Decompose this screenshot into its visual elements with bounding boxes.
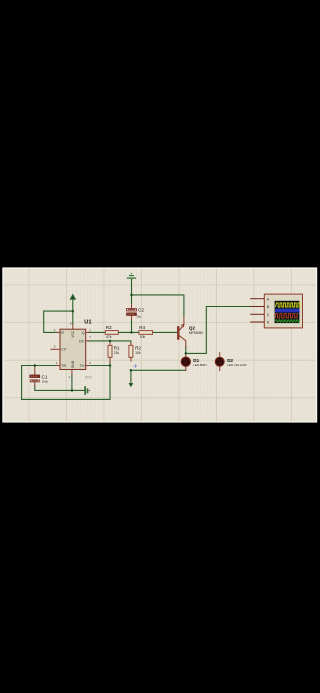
U1 pin stubs — [72, 325, 74, 330]
oscilloscope — [250, 294, 302, 328]
wire Q2 lower lead to D1 junction — [185, 347, 187, 354]
wire TH junction down, bottom run, up to TR line — [22, 366, 110, 400]
wire TH pin6 to R1 bottom junction — [89, 365, 111, 367]
svg-text:LED-BIRY: LED-BIRY — [193, 363, 207, 367]
svg-text:D1: D1 — [193, 358, 199, 363]
svg-text:R3: R3 — [106, 325, 112, 330]
scope pin stubs — [250, 299, 264, 322]
red component pin leads — [35, 304, 220, 385]
svg-text:Q: Q — [82, 331, 85, 335]
node Q2/D1 junction — [185, 352, 188, 355]
C1 leads — [34, 366, 36, 386]
svg-text:10k: 10k — [135, 351, 141, 355]
svg-text:CV: CV — [61, 348, 67, 352]
trace C red wave — [276, 314, 299, 318]
U1 pin numbers — [54, 321, 92, 379]
wire R4 to Q2 base — [153, 331, 178, 333]
trace A yellow square wave — [275, 303, 300, 307]
white frame of schematic canvas — [2, 267, 317, 422]
wire R3 to R4 through junction — [118, 331, 139, 333]
svg-text:DC: DC — [79, 339, 85, 343]
power terminal (up arrow) — [70, 294, 75, 299]
wire C2 top to junction — [131, 295, 133, 305]
svg-text:R1: R1 — [114, 345, 120, 350]
C2 leads — [131, 304, 133, 319]
node C2 top junction — [130, 294, 133, 297]
scope screen — [275, 301, 300, 323]
transistor Q2 MPS8050 — [177, 324, 203, 341]
junction dots — [34, 294, 188, 392]
wire R2 bottom junction down to arrow — [130, 370, 132, 383]
wire VCC arrow to U1 pin8 — [72, 299, 74, 324]
svg-text:R2: R2 — [135, 345, 141, 350]
svg-text:21k: 21k — [114, 351, 120, 355]
diode D1 LED-BIRY — [181, 357, 207, 367]
wire DC pin7 to R2 top — [89, 341, 131, 343]
resistor R1 — [108, 345, 120, 357]
node DC/R1 junction — [109, 340, 112, 343]
svg-text:C1: C1 — [42, 374, 48, 379]
svg-text:TH: TH — [80, 364, 85, 368]
wire Q pin3 to R3 — [89, 331, 106, 333]
trace B blue band — [275, 309, 299, 313]
diode D2 LED-YELLOW — [215, 357, 246, 367]
trace D green sine — [276, 320, 300, 323]
major grid lines — [4, 269, 316, 422]
node R3/R4/C2 junction — [130, 331, 133, 334]
no-connect marker (blue cross) — [134, 364, 138, 368]
D1 leads — [185, 354, 187, 371]
power terminal (down arrow under R2 junction) — [129, 383, 133, 386]
D2 leads — [219, 353, 221, 371]
wire R1 bottom to junction — [109, 362, 111, 366]
Q2 emitter/collector leads — [184, 316, 186, 346]
node R2/D1 ground junction — [130, 369, 133, 372]
U1 reference label — [84, 319, 92, 325]
svg-text:R4: R4 — [139, 325, 145, 330]
R2 leads — [130, 343, 132, 361]
svg-text:LED-YELLOW: LED-YELLOW — [227, 363, 247, 367]
wire reset branch: junction to R pin — [44, 311, 73, 332]
wire D1 bottom to R2 bottom junction — [131, 369, 186, 371]
wire C2 bottom to R3/R4 junction — [131, 320, 133, 333]
svg-text:GND: GND — [71, 360, 75, 368]
wire U1 GND pin1 down to ground line — [71, 375, 73, 391]
resistor R2 — [129, 345, 142, 357]
wire R1 top lead to DC line — [109, 341, 111, 343]
svg-text:555: 555 — [85, 375, 92, 380]
svg-text:100u: 100u — [42, 380, 49, 384]
node TH/R1 junction — [109, 364, 112, 367]
svg-text:47k: 47k — [106, 335, 112, 339]
wire TR junction to TR pin2 — [35, 365, 57, 367]
U1 value label 555 — [85, 375, 92, 380]
svg-text:VCC: VCC — [71, 330, 75, 338]
wire D1 junction right and up to scope B — [186, 307, 255, 354]
ground terminal (right of C1, pointing right) — [85, 386, 91, 394]
capacitor C2 — [127, 308, 145, 319]
svg-text:D2: D2 — [227, 358, 233, 363]
svg-text:U1: U1 — [84, 319, 92, 325]
capacitor C1 — [30, 374, 49, 383]
wire junction up to ground terminal — [131, 279, 133, 295]
scope body — [264, 294, 302, 328]
wire junction to Q2 emitter (top) — [132, 295, 184, 317]
scope pin labels — [267, 297, 270, 324]
node VCC/reset junction — [72, 310, 75, 313]
svg-text:C2: C2 — [138, 308, 144, 313]
svg-text:TR: TR — [61, 364, 66, 368]
resistor R4 — [139, 325, 153, 339]
svg-text:10u: 10u — [136, 314, 141, 318]
op-amp U1 555 timer body — [60, 329, 86, 369]
svg-text:Q2: Q2 — [189, 325, 196, 330]
svg-text:10k: 10k — [140, 335, 146, 339]
svg-text:R: R — [61, 331, 64, 335]
svg-text:MPS8050: MPS8050 — [189, 331, 203, 335]
U1 inside pin names — [61, 330, 85, 368]
ground terminal (top, pointing up) — [127, 273, 136, 278]
resistor R3 — [105, 325, 118, 339]
node GND/C1/U1 junction — [71, 389, 74, 392]
beige grid canvas — [4, 269, 316, 422]
R1 leads — [109, 343, 111, 362]
node TR/C1 junction — [34, 364, 37, 367]
wire C1 bottom to ground line — [35, 386, 85, 391]
